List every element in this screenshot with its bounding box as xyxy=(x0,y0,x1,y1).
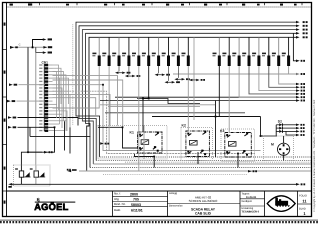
resistor R6 xyxy=(142,37,150,66)
svg-text:Utg: Utg xyxy=(114,197,119,201)
terminal T3 xyxy=(43,51,52,54)
terminal Z5 xyxy=(296,96,305,99)
lower bus extra line 1 xyxy=(125,161,311,163)
terminal X4 xyxy=(8,116,78,119)
wire mid elbow xyxy=(137,99,200,104)
bus wire B xyxy=(79,26,296,161)
CN1 pin fanout wires xyxy=(53,65,71,131)
terminal Y1 xyxy=(296,60,305,63)
svg-text:BLAD: BLAD xyxy=(299,207,306,210)
wire feed K3 xyxy=(228,66,230,133)
bus terminals right stack A xyxy=(296,21,308,39)
terminal Z3 xyxy=(296,89,305,92)
node J1 junction xyxy=(32,46,34,48)
resistor R4 xyxy=(122,37,130,66)
terminal D2-3 xyxy=(296,130,305,133)
svg-text:58003: 58003 xyxy=(131,203,141,207)
terminal pair under R9 xyxy=(174,66,189,81)
relay K3 xyxy=(220,129,251,157)
wire trunk horizontal xyxy=(152,116,261,118)
wire drop R13 xyxy=(239,66,296,97)
wire mid gray pair xyxy=(100,104,215,106)
terminal B1 mid xyxy=(248,170,257,173)
resistor R7 xyxy=(152,37,160,66)
svg-text:M: M xyxy=(271,143,274,147)
bus wire E xyxy=(87,37,296,171)
optocoupler Q2 xyxy=(30,168,45,177)
terminal Y2 xyxy=(296,73,305,76)
bus dotted outer xyxy=(72,24,74,125)
svg-text:Benevnelse: Benevnelse xyxy=(169,204,183,207)
svg-text:2800: 2800 xyxy=(130,192,138,196)
diode block D2 xyxy=(276,119,296,136)
wire drop R18 xyxy=(288,66,290,74)
terminal E1 arrow left end of bus E xyxy=(67,169,76,172)
terminal D2-1 xyxy=(296,124,305,127)
resistor R14 xyxy=(242,37,250,66)
svg-text:CAB SLID: CAB SLID xyxy=(195,211,212,215)
enclosure box motor xyxy=(264,136,294,161)
wire D2 row4 xyxy=(286,131,296,135)
svg-text:FOLIO: FOLIO xyxy=(299,194,307,197)
wire K2 bottom drop xyxy=(197,152,199,164)
wire stub to terminal Y1 xyxy=(293,33,296,61)
wire drop R5 xyxy=(138,66,140,171)
svg-text:TEGNINGER 0: TEGNINGER 0 xyxy=(242,210,260,213)
junction dots xyxy=(27,84,261,158)
connector CN1 xyxy=(39,60,52,132)
svg-text:11-04-91: 11-04-91 xyxy=(246,196,257,199)
terminal Z1 xyxy=(296,83,305,86)
resistor R18 xyxy=(282,37,290,66)
wire drop R11 trunk xyxy=(218,66,220,117)
shield box around K3 xyxy=(221,129,255,162)
resistor R9 xyxy=(172,37,180,66)
terminal pair under R3 xyxy=(115,66,130,74)
CN1 extra fanout xyxy=(53,72,68,131)
terminal Z4 xyxy=(296,93,305,96)
svg-text:No. t: No. t xyxy=(114,192,121,196)
terminal T2 xyxy=(43,46,52,49)
long wire M2 xyxy=(115,96,296,98)
company logo left (AGEL) xyxy=(34,197,75,212)
svg-text:Godkjent: Godkjent xyxy=(242,200,253,203)
terminal T1 xyxy=(43,38,52,41)
CN1 wire row c xyxy=(53,94,111,125)
optocoupler Q1 xyxy=(15,168,30,177)
lower bus wire H xyxy=(53,91,256,153)
svg-text:Anlegg: Anlegg xyxy=(169,192,178,195)
svg-text:C: C xyxy=(19,44,21,47)
wire cross link xyxy=(30,135,90,137)
svg-text:K2: K2 xyxy=(182,124,186,128)
wire Q2 bottom xyxy=(35,177,37,184)
wire cross link stub xyxy=(29,127,31,136)
terminal D2-4 xyxy=(296,134,305,137)
wire drop R1 xyxy=(53,66,100,108)
resistor R3 xyxy=(112,37,120,66)
shield box around K1 xyxy=(98,126,167,160)
svg-text:6/11/91: 6/11/91 xyxy=(131,209,143,213)
svg-text:Best. Nr.: Best. Nr. xyxy=(114,202,126,206)
terminal pair under R8 xyxy=(165,66,180,84)
terminal D2-2 xyxy=(296,127,305,130)
wire drop R17 xyxy=(279,66,296,84)
terminal Z6 xyxy=(296,99,305,102)
terminal B2 mid-left xyxy=(67,169,71,171)
terminal X5 xyxy=(8,126,55,129)
wire trunk drop to D2 xyxy=(261,117,278,137)
bottom page edge dashes xyxy=(0,219,318,222)
svg-text:Dato: Dato xyxy=(114,208,121,212)
wire drop R15 xyxy=(259,66,296,91)
wire K1 bottom drop xyxy=(135,154,155,168)
terminal K1A on wire xyxy=(44,151,53,154)
bus wire C xyxy=(82,30,296,164)
lower bus wire G xyxy=(53,85,261,151)
wire Q1 bottom xyxy=(20,177,22,184)
svg-text:K3: K3 xyxy=(220,129,224,133)
shield box Q1 Q2 xyxy=(14,165,51,186)
wire X5 elbow to node xyxy=(28,127,55,152)
resistor R15 xyxy=(252,37,260,66)
CN1 long row 1 xyxy=(53,76,118,126)
CN1 wire row d xyxy=(53,98,96,116)
wire motor top xyxy=(283,136,285,143)
wire drop from node J1 xyxy=(27,47,29,152)
wire to Q1 xyxy=(21,152,42,171)
terminal X1 arrow xyxy=(10,44,21,49)
terminal PE-L xyxy=(8,183,12,188)
resistor R17 xyxy=(272,37,280,66)
terminal Z2 xyxy=(296,86,305,89)
terminal pair under R4 xyxy=(125,66,140,77)
title block top line xyxy=(7,190,312,192)
wire feed K2 xyxy=(187,66,189,132)
wire drop R14 xyxy=(249,66,296,94)
resistor R16 xyxy=(262,37,270,66)
svg-text:© Copyright by JA-JO Industri: © Copyright by JA-JO Industri & Marine E… xyxy=(313,99,316,212)
CN1 long row 2 xyxy=(53,80,123,127)
dotted wire long xyxy=(105,112,245,114)
svg-text:D2: D2 xyxy=(278,119,282,123)
svg-text:SCREEN ALL/MODO: SCREEN ALL/MODO xyxy=(189,199,218,203)
resistor R11 xyxy=(213,37,221,66)
relay K1 xyxy=(130,131,163,154)
wire Q2 top xyxy=(35,165,37,171)
svg-text:705: 705 xyxy=(133,198,139,202)
lower bus extra line 2 xyxy=(103,173,247,175)
motor M1 xyxy=(271,143,290,156)
terminal PE-R xyxy=(296,183,305,186)
wire drop R6 xyxy=(143,66,149,132)
wire junction to terminal row 1 xyxy=(33,40,44,48)
top ruler ticks xyxy=(10,3,297,5)
resistor R10 xyxy=(182,37,190,66)
svg-text:K1: K1 xyxy=(130,131,134,135)
left ruler ticks xyxy=(3,50,7,192)
terminal inside shield box xyxy=(100,142,109,145)
terminal pair under R7 xyxy=(155,66,170,76)
long wire M1 xyxy=(173,73,296,75)
terminal pair on K2 feed xyxy=(189,79,205,82)
wire drop CN1-f xyxy=(69,127,71,153)
terminal X2 xyxy=(9,83,45,86)
wire K3 bottom drop xyxy=(237,154,239,168)
wire drop R2 xyxy=(108,66,110,151)
eye logo right xyxy=(267,196,295,212)
relay K2 xyxy=(182,124,210,157)
wire drop from X4 wire xyxy=(77,118,79,126)
terminal X3 xyxy=(7,100,45,103)
wire through K1 vertical xyxy=(143,126,145,160)
resistor R12 xyxy=(222,37,230,66)
svg-text:AGŌEL: AGŌEL xyxy=(34,202,68,212)
resistor R8 xyxy=(162,37,170,66)
terminal X1 input wire xyxy=(10,46,47,48)
svg-text:CN1: CN1 xyxy=(42,60,49,64)
wire into K1 xyxy=(98,127,138,148)
long wire M3 xyxy=(100,100,296,102)
wire trunk vertical xyxy=(215,101,217,158)
wire motor bottom xyxy=(283,155,285,160)
bottom wire PE xyxy=(12,183,296,185)
bus wire D xyxy=(86,33,296,167)
wire feed K2b xyxy=(193,37,195,120)
wire to terminal row 3 xyxy=(36,47,43,52)
wire mid gray pair2 xyxy=(108,106,200,108)
wire drop R16 xyxy=(269,66,296,87)
title block dividers xyxy=(113,191,312,217)
resistor R1 xyxy=(92,37,100,66)
wire drop CN1-e xyxy=(64,121,66,150)
bus wire A xyxy=(76,22,296,157)
wire drop gray xyxy=(35,53,37,165)
title block texts xyxy=(114,192,143,213)
resistor R5 xyxy=(132,37,140,66)
shield box around K2 xyxy=(181,128,213,161)
resistor R2 xyxy=(102,37,110,66)
resistor R13 xyxy=(232,37,240,66)
